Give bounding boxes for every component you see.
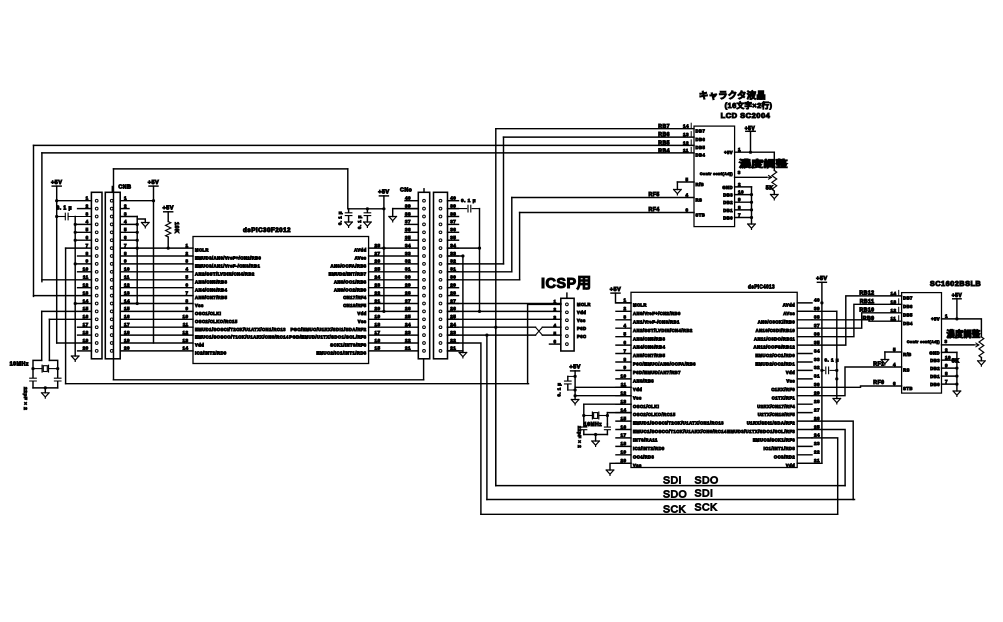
- svg-text:12: 12: [683, 140, 689, 145]
- svg-text:1: 1: [553, 299, 556, 304]
- wire row9 stub: [75, 263, 91, 265]
- svg-text:RF0: RF0: [873, 380, 884, 386]
- wire ground drop CNc row2: [392, 209, 394, 217]
- svg-text:10: 10: [738, 190, 744, 195]
- svg-text:R/B: R/B: [696, 182, 705, 187]
- svg-text:24: 24: [450, 322, 456, 327]
- svg-text:21: 21: [405, 346, 411, 351]
- capacitor C8 22pF chip2 left: [583, 424, 585, 426]
- svg-text:39: 39: [450, 203, 456, 208]
- svg-text:OC3/RD2: OC3/RD2: [774, 454, 796, 459]
- wire stub chip2 pin 37 right: [797, 327, 812, 329]
- wire stub chip2 pin 30 right: [797, 386, 812, 388]
- pin 12 circle connector CNB: [110, 286, 113, 289]
- svg-text:24: 24: [405, 322, 411, 327]
- wire RB6 net vertical: [503, 137, 505, 264]
- pin 12 circle connector J1: [95, 286, 98, 289]
- svg-text:IC1/INT1/RD8: IC1/INT1/RD8: [763, 446, 795, 451]
- svg-text:PGD/EMUD/U1TX/SDO1/SCL/RF3: PGD/EMUD/U1TX/SDO1/SCL/RF3: [289, 335, 367, 340]
- svg-text:RB9: RB9: [863, 316, 875, 322]
- svg-text:29: 29: [814, 391, 820, 396]
- svg-text:AN9/C3CK//RB9: AN9/C3CK//RB9: [758, 319, 796, 324]
- svg-text:39: 39: [814, 306, 820, 311]
- pin 29 circle connector CNd: [439, 286, 442, 289]
- svg-text:AN11/C3DO/RB11: AN11/C3DO/RB11: [754, 336, 795, 341]
- svg-text:5: 5: [185, 275, 188, 280]
- svg-text:0. 1 μ: 0. 1 μ: [357, 215, 362, 229]
- svg-text:1: 1: [124, 196, 127, 201]
- wire chip1 pin 17 to CNc: [369, 334, 419, 336]
- wire stub CNd row7: [448, 247, 459, 249]
- wire MCLR down left: [65, 248, 67, 384]
- node junction +5V at row3 cap: [55, 215, 58, 218]
- svg-text:30: 30: [405, 275, 411, 280]
- wire X to ICSP pin5: [542, 334, 561, 336]
- pin 15 circle connector J1: [95, 310, 98, 313]
- pin 28 circle connector CNc: [423, 294, 426, 297]
- svg-text:9: 9: [738, 197, 741, 202]
- pin 10 circle connector CNB: [110, 270, 113, 273]
- svg-text:26: 26: [814, 416, 820, 421]
- svg-text:36: 36: [814, 332, 820, 337]
- svg-text:RB4: RB4: [658, 149, 670, 155]
- ground symbol chip2 right: [833, 399, 841, 404]
- svg-text:23: 23: [450, 330, 456, 335]
- pin 1 circle connector J1: [95, 199, 98, 202]
- svg-text:19: 19: [124, 338, 130, 343]
- svg-text:29: 29: [405, 283, 411, 288]
- node junction CNB bus bottom: [136, 302, 139, 305]
- svg-text:8: 8: [124, 251, 127, 256]
- capacitor C6 22pF right: [57, 369, 59, 378]
- pin 20 circle connector J1: [95, 350, 98, 353]
- svg-text:2: 2: [185, 251, 188, 256]
- node junction cap gnd side: [835, 369, 838, 372]
- wire CNB row18 to chip1 pin 12: [120, 334, 193, 336]
- wire resistor to MCLR: [167, 237, 169, 248]
- svg-text:Vdd: Vdd: [633, 387, 642, 392]
- svg-text:28: 28: [450, 290, 456, 295]
- wire CNc row15 to ICSP pin2: [448, 310, 562, 312]
- svg-text:RB12: RB12: [859, 291, 874, 297]
- ground symbol crystal2: [592, 441, 600, 446]
- pin 17 circle connector J1: [95, 326, 98, 329]
- svg-text:4: 4: [623, 323, 626, 328]
- pin 30 circle connector CNc: [423, 278, 426, 281]
- svg-text:+5V: +5V: [148, 180, 159, 186]
- node junction Vss: [574, 394, 577, 397]
- crystal X1 10MHz: [33, 368, 42, 370]
- svg-text:10: 10: [182, 314, 188, 319]
- wire stub chip2 pin 28 right: [797, 403, 812, 405]
- pin 4 circle ICSP: [566, 327, 569, 330]
- wire stub CNd row6: [448, 239, 459, 241]
- ground symbol pot LCD1: [771, 195, 779, 200]
- svg-text:14: 14: [620, 407, 626, 412]
- wire chip1 pin 22 to CNc: [369, 295, 419, 297]
- svg-text:EMUC1/SOSCO/T1CK/U1ARX/CN0/RC1: EMUC1/SOSCO/T1CK/U1ARX/CN0/RC14: [633, 429, 727, 434]
- svg-text:EMUD3/U1TX/SDO1/SCL/RF3: EMUD3/U1TX/SDO1/SCL/RF3: [727, 429, 795, 434]
- wire stub chip2 pin 12: [616, 395, 631, 397]
- pin 32 circle connector CNc: [423, 263, 426, 266]
- svg-text:CNc: CNc: [400, 187, 412, 193]
- svg-text:EMUD3/AN0/VreF+/CN2/RB0: EMUD3/AN0/VreF+/CN2/RB0: [195, 256, 262, 261]
- svg-text:35: 35: [814, 340, 820, 345]
- wire AVss down: [836, 311, 838, 398]
- svg-text:Contr cont(Adj): Contr cont(Adj): [700, 172, 733, 176]
- svg-text:+5V: +5V: [931, 317, 940, 322]
- svg-text:濃度調整: 濃度調整: [739, 158, 788, 169]
- svg-text:AN8/OC1/RB8: AN8/OC1/RB8: [334, 279, 367, 284]
- wire stub CNd row8: [448, 255, 459, 257]
- svg-text:Vss: Vss: [195, 303, 204, 308]
- svg-text:OSC2/CLKO/RC15: OSC2/CLKO/RC15: [633, 412, 676, 417]
- pin 13 circle connector J1: [95, 294, 98, 297]
- svg-text:14: 14: [182, 346, 188, 351]
- pin 14 circle connector CNB: [110, 302, 113, 305]
- svg-text:9: 9: [86, 259, 89, 264]
- pin 6 circle connector CNB: [110, 239, 113, 242]
- wire chip1 pin 25 to CNc: [369, 271, 419, 273]
- svg-text:4: 4: [685, 192, 688, 197]
- node junction +5V cap rail: [382, 207, 385, 210]
- wire +5V to resistor: [167, 212, 169, 222]
- svg-text:3: 3: [945, 339, 948, 344]
- svg-text:+5V: +5V: [724, 150, 733, 155]
- svg-text:7: 7: [738, 213, 741, 218]
- pin 14 circle connector J1: [95, 302, 98, 305]
- wire stub chip2 pin 36 right: [797, 336, 812, 338]
- wire CNB row4 to ground bus: [120, 223, 137, 225]
- wire row6 stub: [75, 239, 91, 241]
- pin 8 circle connector J1: [95, 255, 98, 258]
- wire stub CNd row15: [448, 310, 459, 312]
- wire +5V left rail vertical: [56, 186, 58, 343]
- svg-text:7: 7: [623, 348, 626, 353]
- svg-text:Vdd: Vdd: [577, 310, 586, 315]
- pin 18 circle connector J1: [95, 334, 98, 337]
- svg-text:3: 3: [738, 170, 741, 175]
- pin 18 circle connector CNB: [110, 334, 113, 337]
- wire +5V CNc vertical: [383, 196, 385, 312]
- svg-text:1: 1: [623, 298, 626, 303]
- svg-text:DB0: DB0: [723, 215, 733, 220]
- svg-text:33: 33: [450, 251, 456, 256]
- wire stub chip2 pin 8: [616, 361, 631, 363]
- chip1 big loop wire left: [113, 169, 115, 380]
- wire chip2 Vdd pin11: [575, 386, 631, 388]
- svg-text:11: 11: [83, 275, 89, 280]
- svg-text:22: 22: [814, 450, 820, 455]
- svg-text:14: 14: [891, 291, 897, 296]
- svg-text:7: 7: [185, 290, 188, 295]
- svg-text:R/B: R/B: [903, 352, 912, 357]
- wire CNc row11 to RF4 vertical: [448, 279, 520, 281]
- wire RB5 connector stub row13: [34, 295, 92, 297]
- svg-text:36: 36: [450, 227, 456, 232]
- wire stub chip2 pin 4: [616, 327, 631, 329]
- wire bypass rail chip1 top: [349, 208, 384, 210]
- pin 19 circle connector J1: [95, 342, 98, 345]
- svg-text:Vss: Vss: [633, 395, 642, 400]
- wire CNB row9 to chip1 pin 3: [120, 263, 193, 265]
- svg-text:EMUD1/SOSCI/T2CK/U1ATX/CN1/RC1: EMUD1/SOSCI/T2CK/U1ATX/CN1/RC13: [633, 421, 724, 426]
- svg-text:22: 22: [374, 290, 380, 295]
- svg-text:20: 20: [83, 346, 89, 351]
- svg-text:Vdd: Vdd: [357, 311, 366, 316]
- wire stub CNd row19: [448, 342, 459, 344]
- node junction Vdd32 chip2: [820, 369, 823, 372]
- wire ground bus CNc vertical: [462, 256, 464, 353]
- svg-text:35: 35: [450, 235, 456, 240]
- wire GND bus LCD2: [956, 352, 958, 391]
- wire CNB row11 to chip1 pin 5: [120, 279, 193, 281]
- wire chip1 pin 21 to CNc: [369, 303, 419, 305]
- pin 22 circle connector CNd: [439, 342, 442, 345]
- svg-text:OSC2/CLKO/RC15: OSC2/CLKO/RC15: [195, 319, 238, 324]
- wire SDO vertical left: [486, 335, 488, 499]
- wire CNB row7 to ground bus: [120, 247, 137, 249]
- svg-text:38: 38: [405, 211, 411, 216]
- wire CNB row14 to chip1 pin 8: [120, 303, 193, 305]
- svg-text:RF4: RF4: [649, 207, 660, 213]
- chip1 big loop wire right riser: [423, 359, 425, 380]
- svg-text:12: 12: [124, 283, 130, 288]
- wire stub chip2 pin 26 right: [797, 420, 812, 422]
- pin 25 circle connector CNc: [423, 318, 426, 321]
- wire CNc row20 Vss stub: [448, 350, 463, 352]
- wire stub chip2 pin 18: [616, 445, 631, 447]
- svg-text:21: 21: [374, 298, 380, 303]
- wire chip2 pin20 Vss: [610, 463, 631, 470]
- pin 16 circle connector CNB: [110, 318, 113, 321]
- svg-text:32: 32: [814, 365, 820, 370]
- svg-text:2: 2: [124, 203, 127, 208]
- wire CNB row8 to chip1 pin 2: [120, 255, 193, 257]
- connector CNc index tick: [423, 189, 425, 193]
- LCD2 SC1602BSLB body: [902, 293, 942, 394]
- svg-text:2: 2: [945, 347, 948, 352]
- wire chip1 pin 15 to CNc: [369, 350, 419, 352]
- svg-text:40: 40: [450, 196, 456, 201]
- svg-text:13: 13: [83, 290, 89, 295]
- svg-text:CN18/RF5: CN18/RF5: [343, 303, 367, 308]
- svg-text:C1RX/RF0: C1RX/RF0: [771, 387, 795, 392]
- svg-text:Vss: Vss: [577, 318, 586, 323]
- svg-text:30: 30: [450, 275, 456, 280]
- wire stub CNd row9: [448, 263, 459, 265]
- wire stub chip2 pin 13: [616, 403, 631, 405]
- svg-text:DB7: DB7: [696, 129, 706, 134]
- svg-text:AN8/RB8: AN8/RB8: [633, 379, 654, 384]
- svg-text:7: 7: [945, 379, 948, 384]
- svg-text:U2RX/CN17/RF4: U2RX/CN17/RF4: [757, 404, 795, 409]
- svg-text:39: 39: [405, 203, 411, 208]
- svg-text:P6C: P6C: [577, 334, 587, 339]
- svg-text:17: 17: [620, 433, 626, 438]
- connector CNc box first: [418, 192, 429, 358]
- svg-text:ICSP用: ICSP用: [541, 275, 592, 292]
- svg-text:31: 31: [814, 374, 820, 379]
- svg-text:3: 3: [124, 211, 127, 216]
- svg-text:RB11: RB11: [860, 299, 875, 305]
- svg-text:28: 28: [374, 243, 380, 248]
- svg-text:AN2/SST/LVDIN/CN4/RB2: AN2/SST/LVDIN/CN4/RB2: [195, 271, 255, 276]
- svg-text:AN9/OC2/RB9: AN9/OC2/RB9: [334, 287, 367, 292]
- svg-text:0. 1 μ: 0. 1 μ: [338, 211, 343, 225]
- wire CNc row10 to RF5 vertical: [448, 271, 512, 273]
- wire stub chip2 pin 33 right: [797, 361, 812, 363]
- svg-text:12: 12: [620, 391, 626, 396]
- pin 40 circle connector CNd: [439, 199, 442, 202]
- wire ground bus left vertical: [74, 217, 76, 357]
- svg-text:RS: RS: [696, 197, 703, 202]
- svg-text:2: 2: [553, 307, 556, 312]
- svg-text:12: 12: [83, 283, 89, 288]
- wire OSC1 row15 stub to crystal: [42, 310, 92, 312]
- svg-text:18: 18: [620, 441, 626, 446]
- svg-text:6: 6: [623, 340, 626, 345]
- wire stub CNd row4: [448, 223, 459, 225]
- svg-text:22pF × 2: 22pF × 2: [22, 387, 28, 410]
- svg-text:DB5: DB5: [903, 313, 913, 318]
- pin 17 circle connector CNB: [110, 326, 113, 329]
- wire stub CNd row16: [448, 318, 459, 320]
- svg-text:16: 16: [124, 314, 130, 319]
- wire R/W to ground LCD1: [676, 182, 678, 190]
- wire stub CNd row18: [448, 334, 459, 336]
- svg-text:37: 37: [814, 323, 820, 328]
- wire stub chip2 pin 31 right: [797, 378, 812, 380]
- wire stub chip2 pin 25 right: [797, 429, 812, 431]
- pin 20 circle connector CNB: [110, 350, 113, 353]
- svg-text:15: 15: [83, 306, 89, 311]
- svg-text:3: 3: [553, 315, 556, 320]
- svg-text:SCK: SCK: [695, 502, 718, 514]
- svg-text:RB10: RB10: [859, 308, 874, 314]
- svg-text:Contr cont(Adj): Contr cont(Adj): [907, 340, 940, 344]
- svg-text:CN17/RF4: CN17/RF4: [343, 295, 367, 300]
- wire row4 stub: [75, 223, 91, 225]
- pin 34 circle connector CNc: [423, 247, 426, 250]
- pin 7 circle connector J1: [95, 247, 98, 250]
- svg-text:5: 5: [124, 227, 127, 232]
- pin 10 circle connector J1: [95, 270, 98, 273]
- wire stub CNd row20: [448, 350, 459, 352]
- svg-text:SCK: SCK: [663, 503, 686, 515]
- wire chip2 OSC2: [607, 412, 631, 414]
- pin 21 circle connector CNd: [439, 350, 442, 353]
- wire CNB row3 to bus: [120, 216, 137, 218]
- wire stub left connector row2: [78, 208, 92, 210]
- wire RB4 horizontal to LCD1 DB4: [42, 152, 694, 154]
- svg-text:34: 34: [450, 243, 456, 248]
- svg-text:14: 14: [124, 298, 130, 303]
- svg-text:26: 26: [450, 306, 456, 311]
- wire stub chip2 pin 1: [616, 302, 631, 304]
- svg-text:19: 19: [374, 314, 380, 319]
- svg-text:IC2/INT2/RD9: IC2/INT2/RD9: [633, 446, 665, 451]
- svg-text:8: 8: [945, 371, 948, 376]
- wire chip2 SDI pin26 drop: [812, 421, 853, 499]
- wire RB10 net: [812, 313, 902, 328]
- wire row14 stub: [75, 303, 91, 305]
- pin 40 circle connector CNc: [423, 199, 426, 202]
- svg-text:AVdd: AVdd: [783, 303, 795, 308]
- svg-text:LCD SC2004: LCD SC2004: [721, 111, 771, 120]
- wire stub chip2 pin 5: [616, 336, 631, 338]
- wire MCLR long horizontal to ICSP: [66, 383, 529, 385]
- svg-text:+5V: +5V: [816, 276, 827, 282]
- svg-text:+5V: +5V: [378, 190, 389, 196]
- svg-text:3: 3: [86, 211, 89, 216]
- pin 22 circle connector CNc: [423, 342, 426, 345]
- svg-text:16: 16: [620, 424, 626, 429]
- svg-text:10: 10: [620, 374, 626, 379]
- wire +5V to pot LCD1: [751, 152, 775, 170]
- wire stub chip2 pin 35 right: [797, 344, 812, 346]
- svg-text:38: 38: [814, 315, 820, 320]
- wire RB7 net vertical: [495, 129, 497, 486]
- wire stub chip2 pin 40 right: [797, 302, 812, 304]
- wire chip1 pin 24 to CNc: [369, 279, 419, 281]
- pin 13 circle connector CNB: [110, 294, 113, 297]
- svg-text:20: 20: [124, 346, 130, 351]
- ground symbol CNB: [142, 223, 150, 228]
- pin 29 circle connector CNc: [423, 286, 426, 289]
- chip1 big loop wire top: [114, 168, 348, 170]
- svg-text:EMUD1/SOSCI/T2CK/U1ATX/CN1/RC1: EMUD1/SOSCI/T2CK/U1ATX/CN1/RC13: [195, 327, 286, 332]
- resistor R1 10K pullup: [166, 222, 171, 238]
- svg-text:38: 38: [450, 211, 456, 216]
- node junction row4 gnd: [74, 223, 77, 226]
- wire CNB ground bus vertical: [136, 217, 138, 304]
- wire stub chip2 pin 9: [616, 369, 631, 371]
- wire +5V to Vdd row19: [57, 342, 92, 344]
- svg-text:13: 13: [620, 399, 626, 404]
- wire crystal top left corner: [33, 360, 42, 368]
- pin 36 circle connector CNd: [439, 231, 442, 234]
- wire CNB row12 to chip1 pin 6: [120, 287, 193, 289]
- wire RB6 to LCD1 DB6: [504, 136, 695, 138]
- pin 16 circle connector J1: [95, 318, 98, 321]
- svg-text:0. 1 μ: 0. 1 μ: [57, 206, 73, 212]
- svg-text:40: 40: [814, 298, 820, 303]
- svg-text:27: 27: [450, 298, 456, 303]
- wire stub left connector row20: [78, 350, 92, 352]
- wire CNB bus ground branch: [137, 219, 145, 223]
- node junction CNB pin1 +5V: [152, 199, 155, 202]
- wire RB9 net: [812, 320, 902, 321]
- svg-text:STB: STB: [696, 212, 706, 217]
- wire CNc row16 to ICSP pin3: [448, 318, 562, 320]
- svg-text:25: 25: [405, 314, 411, 319]
- svg-text:DB2: DB2: [930, 366, 940, 371]
- ground symbol LCD1 gndbus: [748, 224, 756, 229]
- wire stub chip2 pin 27 right: [797, 412, 812, 414]
- svg-text:4: 4: [893, 362, 896, 367]
- wire CNB row19 to chip1 pin 13: [120, 342, 193, 344]
- svg-text:14: 14: [683, 124, 689, 129]
- svg-text:29: 29: [450, 283, 456, 288]
- svg-text:13: 13: [124, 290, 130, 295]
- svg-text:RS: RS: [903, 367, 910, 372]
- svg-text:OSC1/CLKI: OSC1/CLKI: [195, 311, 221, 316]
- svg-text:+5V: +5V: [610, 287, 621, 293]
- pin 33 circle connector CNd: [439, 255, 442, 258]
- svg-text:34: 34: [814, 348, 820, 353]
- svg-text:OSC1/CLKI: OSC1/CLKI: [633, 404, 659, 409]
